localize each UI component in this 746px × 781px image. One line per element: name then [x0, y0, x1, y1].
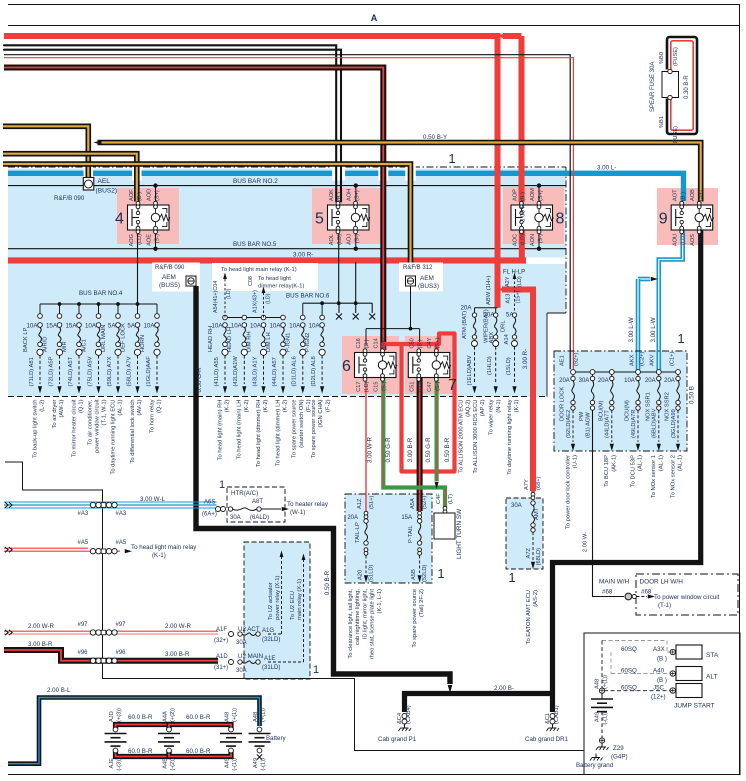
wire: relay4 LD to bus bar no.4: [137, 230, 139, 304]
svg-text:3.00 R-: 3.00 R-: [293, 252, 313, 259]
svg-text:C4Y: C4Y: [427, 337, 433, 348]
svg-text:BUS BAR NO.4: BUS BAR NO.4: [79, 290, 123, 297]
svg-text:10A: 10A: [85, 323, 97, 330]
wire: 0.50 G-R relay6 S- to light turn switch: [383, 378, 445, 507]
svg-text:To head light main relay: To head light main relay: [131, 544, 197, 551]
svg-text:DIM LH: DIM LH: [266, 332, 272, 352]
relay 7 highlight: [405, 336, 456, 394]
svg-text:To head light: To head light: [258, 276, 291, 282]
svg-text:A4B: A4B: [163, 758, 169, 769]
svg-text:2.00 W-R: 2.00 W-R: [28, 623, 55, 630]
svg-text:(K-2): (K-2): [225, 399, 231, 412]
svg-text:To mirror heater circuit: To mirror heater circuit: [71, 399, 77, 457]
svg-text:A48: A48: [225, 712, 231, 722]
wire: AEM BUS3 to relay 6/7 coils: [410, 286, 412, 329]
svg-text:8: 8: [556, 211, 565, 228]
svg-text:10A: 10A: [289, 323, 301, 330]
wire: 60.0 B-R battery links top: [116, 725, 170, 730]
wire: 0.50 G-R from AEM BUS5 to ground bus: [196, 286, 450, 684]
svg-text:AOJ: AOJ: [346, 234, 352, 245]
svg-text:(LD): (LD): [226, 288, 232, 299]
svg-text:(BUS3): (BUS3): [418, 283, 439, 290]
svg-text:A: A: [371, 13, 378, 23]
svg-text:(6BLD)ABV: (6BLD)ABV: [652, 408, 658, 438]
svg-text:#96: #96: [116, 650, 127, 656]
wire: 0.50 B-R loop relay6 S+ to relay7: [383, 334, 454, 472]
wire: 0.50 B from relay 9: [553, 230, 701, 691]
svg-text:ID light, mirror light,: ID light, mirror light,: [362, 589, 368, 640]
svg-text:To head light (dimmer) LH: To head light (dimmer) LH: [275, 400, 281, 467]
svg-text:A48: A48: [595, 679, 601, 689]
svg-text:AOG: AOG: [129, 234, 135, 246]
svg-text:(LD): (LD): [266, 293, 272, 304]
svg-text:A8T: A8T: [252, 499, 263, 505]
svg-text:5: 5: [315, 211, 324, 228]
svg-text:To head light (dimmer) RH: To head light (dimmer) RH: [256, 400, 262, 468]
svg-text:3.00 B-R: 3.00 B-R: [28, 641, 53, 648]
svg-text:A5B: A5B: [411, 569, 417, 580]
svg-text:(31+): (31+): [214, 665, 228, 671]
svg-text:(B ): (B ): [364, 339, 370, 348]
svg-text:AOD: AOD: [146, 189, 152, 201]
wire: bus bar no.6 left rail (head lamp): [225, 317, 283, 319]
svg-text:15A: 15A: [46, 323, 58, 330]
svg-text:A40: A40: [653, 668, 665, 675]
svg-text:(LT): (LT): [448, 494, 454, 504]
frame: cab section boundary: [5, 462, 584, 751]
svg-text:MAIN W/H: MAIN W/H: [599, 579, 630, 586]
svg-text:AON: AON: [530, 234, 536, 246]
relay 4 highlight: [117, 188, 179, 244]
svg-text:ALT: ALT: [706, 674, 718, 681]
svg-text:rheo stat, license plate light: rheo stat, license plate light: [370, 589, 376, 660]
connector AEL (BUS2) R&F/B 090: [83, 178, 94, 191]
relay 8: [511, 205, 553, 230]
wire: B-Y to relay 4: [3, 154, 137, 202]
svg-text:AOL: AOL: [329, 234, 335, 245]
svg-text:A1E: A1E: [264, 656, 275, 662]
svg-text:NOX SSR2: NOX SSR2: [665, 392, 671, 421]
fuse DEF LOCK 5A: [137, 304, 139, 314]
svg-text:P-TAIL: P-TAIL: [408, 525, 414, 543]
svg-text:(68LD): (68LD): [536, 548, 542, 565]
svg-text:(AL-1): (AL-1): [638, 455, 644, 471]
svg-text:5A: 5A: [108, 323, 116, 330]
wire: 0.50 W-R feed: [4, 55, 570, 370]
node: door harness interface box: [636, 574, 738, 615]
svg-text:4: 4: [115, 211, 124, 228]
svg-text:1: 1: [508, 570, 515, 585]
svg-text:BUS BAR NO.2: BUS BAR NO.2: [233, 178, 278, 185]
relay 7: [408, 353, 450, 378]
svg-text:(AL-1): (AL-1): [118, 399, 124, 415]
fuse HORN 10A: [156, 304, 158, 314]
svg-text:&C1: &C1: [545, 713, 551, 724]
svg-text:(AL-1): (AL-1): [678, 455, 684, 471]
svg-text:AOB: AOB: [690, 189, 696, 201]
wire: bus bar no.6 right rail: [303, 302, 372, 304]
svg-text:3.00 R-: 3.00 R-: [522, 349, 529, 369]
svg-text:20A: 20A: [460, 305, 472, 312]
svg-text:20A: 20A: [347, 515, 358, 521]
svg-text:(LD): (LD): [418, 381, 424, 392]
svg-text:(B ): (B ): [337, 192, 343, 201]
connector AEM (BUS5) R&F/B 090: [152, 263, 200, 292]
svg-text:P-IGN2: P-IGN2: [305, 333, 311, 352]
svg-text:3.00 B-R: 3.00 B-R: [407, 437, 414, 462]
svg-text:To spare power source: To spare power source: [412, 589, 418, 648]
svg-text:(71LD) A81: (71LD) A81: [29, 357, 35, 386]
svg-text:AOE: AOE: [146, 234, 152, 246]
svg-text:30A: 30A: [230, 515, 241, 521]
svg-text:R&F/B 090: R&F/B 090: [54, 195, 85, 202]
wire: BUS BAR NO.5 rail: [8, 248, 566, 250]
svg-text:(S+): (S+): [698, 190, 704, 201]
svg-text:(S-): (S-): [381, 381, 387, 390]
node: bus bar region NO.4/NO.6 (light blue): [8, 264, 566, 397]
svg-text:AEL: AEL: [98, 178, 111, 185]
svg-text:(92+): (92+): [573, 352, 579, 366]
connector AEM (BUS3) R&F/B 312: [399, 263, 443, 292]
svg-text:(F-2): (F-2): [325, 399, 331, 412]
svg-text:To power door lock controller: To power door lock controller: [565, 455, 571, 529]
svg-text:AOT: AOT: [673, 189, 679, 201]
svg-text:(LD): (LD): [520, 234, 526, 245]
svg-text:60SQ: 60SQ: [621, 685, 637, 692]
svg-text:(+(3)): (+(3)): [116, 708, 122, 722]
svg-text:dimmer relay(K-1): dimmer relay(K-1): [258, 284, 304, 290]
fuse DIM RH 10A: [261, 315, 266, 320]
svg-text:C47: C47: [427, 382, 433, 392]
svg-text:(51LD): (51LD): [369, 565, 375, 582]
svg-text:A3X: A3X: [653, 646, 665, 653]
wire: B-Y to AEL(BUS2): [3, 126, 88, 177]
node: head light relay taps above bus no.6: [212, 263, 318, 291]
svg-text:(43LD) A1Y: (43LD) A1Y: [252, 356, 258, 386]
svg-text:(AQ-2): (AQ-2): [466, 399, 472, 416]
svg-text:C08: C08: [248, 276, 254, 286]
node: DOOR LOCK fuse box 1 (light blue): [554, 351, 687, 451]
svg-text:(CAB1): (CAB1): [554, 705, 560, 724]
svg-text:10A: 10A: [143, 323, 155, 330]
svg-text:(Q-1): (Q-1): [79, 399, 85, 413]
svg-text:#A5: #A5: [116, 540, 127, 546]
svg-text:DRL MAIN: DRL MAIN: [101, 325, 107, 352]
fuse DIM LH 10A: [281, 315, 286, 320]
svg-text:60.0 B-R: 60.0 B-R: [128, 748, 153, 755]
wire: 2.00 B-L battery feed: [8, 698, 260, 764]
svg-text:0.50 G-R: 0.50 G-R: [425, 437, 432, 463]
svg-text:(1GLD)AAF: (1GLD)AAF: [146, 356, 152, 387]
svg-text:A1X(43+): A1X(43+): [253, 290, 259, 313]
fuse DOOR LOCK 20A: [571, 370, 576, 375]
svg-text:To differential lock switch: To differential lock switch: [130, 400, 136, 464]
svg-text:C14: C14: [373, 338, 379, 348]
node: tail lamp fuse box border: [345, 494, 432, 583]
svg-text:To spare power source: To spare power source: [292, 400, 298, 459]
svg-text:(41LD) A55: (41LD) A55: [214, 357, 220, 386]
svg-text:%B0: %B0: [659, 52, 665, 64]
svg-text:#68: #68: [641, 589, 652, 596]
wire: bus bar no.2 lower rail: [8, 185, 566, 187]
svg-text:(B ): (B ): [520, 192, 526, 201]
svg-text:(S+): (S+): [354, 190, 360, 201]
svg-text:9: 9: [659, 211, 668, 228]
wire: 3.00 L-W relay 9 to door-lock fuses: [659, 230, 683, 370]
svg-text:To wiper relay: To wiper relay: [489, 399, 495, 435]
svg-text:To head light (main) RH: To head light (main) RH: [217, 400, 223, 461]
svg-text:To back-up light switch: To back-up light switch: [32, 400, 38, 458]
fuse AIR/D 15A: [59, 304, 61, 314]
fuse HEAD RH 10A: [223, 315, 228, 320]
svg-text:(LD): (LD): [337, 234, 343, 245]
svg-text:DRL: DRL: [501, 320, 507, 332]
svg-text:To power window circuit: To power window circuit: [654, 594, 720, 601]
wire: 3.00 W-L heater feed: [4, 501, 217, 503]
svg-text:(B ): (B ): [657, 656, 667, 663]
fuse BCU(M) 20A: [609, 370, 614, 375]
svg-text:TAIL-LP: TAIL-LP: [355, 522, 361, 543]
relay 5 highlight: [312, 188, 382, 244]
svg-text:HORN: HORN: [140, 335, 146, 352]
svg-text:20A: 20A: [645, 378, 656, 384]
svg-text:C15: C15: [373, 382, 379, 392]
svg-text:J5C: J5C: [653, 685, 665, 692]
wire: 3.00 B-R relay7 LD to P-TAIL: [417, 378, 423, 511]
node: AMT fuse box 1 (light blue): [506, 498, 543, 569]
svg-text:NOX SSR1: NOX SSR1: [645, 392, 651, 421]
svg-text:C4F: C4F: [436, 493, 442, 504]
svg-text:DIM RH: DIM RH: [246, 331, 252, 352]
svg-text:#A3: #A3: [116, 511, 127, 517]
svg-text:To BCU 18P: To BCU 18P: [604, 455, 610, 487]
wire: 2.00 W-R: [4, 630, 218, 632]
battery A4A: [167, 727, 172, 732]
svg-text:To spare power source: To spare power source: [311, 400, 317, 459]
svg-text:15A: 15A: [65, 323, 77, 330]
svg-text:5A: 5A: [127, 323, 135, 330]
svg-text:30A: 30A: [579, 378, 590, 384]
svg-text:10A: 10A: [624, 378, 635, 384]
svg-text:(-(1)): (-(1)): [260, 758, 266, 771]
svg-text:AEM: AEM: [162, 274, 176, 281]
svg-text:(LD): (LD): [681, 234, 687, 245]
relay 5: [328, 205, 370, 230]
svg-text:(15+): (15+): [516, 290, 522, 303]
svg-text:#97: #97: [78, 622, 89, 628]
svg-text:30A: 30A: [236, 668, 247, 674]
svg-text:(68+): (68+): [536, 476, 542, 490]
svg-text:BUS BAR NO.5: BUS BAR NO.5: [233, 241, 277, 248]
svg-text:ABX: ABX: [489, 332, 495, 344]
svg-text:(Tail) 2F-2): (Tail) 2F-2): [419, 589, 425, 617]
svg-text:A5A: A5A: [410, 498, 416, 509]
svg-text:MIR: MIR: [62, 341, 68, 352]
wire: 3.00 B-R lower feed: [4, 650, 218, 661]
wire: door box internal bus: [573, 371, 678, 373]
svg-text:(AW-1): (AW-1): [59, 399, 65, 417]
wire: relay S+ stubs to bus rail: [155, 186, 157, 203]
svg-text:(12+): (12+): [651, 694, 666, 701]
svg-text:(-(2)): (-(2)): [170, 758, 176, 771]
junction arrow blue: [651, 277, 658, 281]
svg-text:AOS: AOS: [690, 234, 696, 246]
svg-text:To daytime running light relay: To daytime running light relay: [507, 399, 513, 475]
relay 9: [671, 205, 713, 230]
svg-text:3.00 B-R: 3.00 B-R: [165, 651, 190, 658]
svg-text:A1G: A1G: [262, 628, 274, 634]
svg-text:Cab grand DR1: Cab grand DR1: [525, 736, 569, 743]
svg-text:P-IGN1: P-IGN1: [286, 333, 292, 352]
svg-text:(44LD)A7T: (44LD)A7T: [605, 410, 611, 438]
svg-text:(6A+): (6A+): [202, 512, 217, 518]
svg-text:A14: A14: [504, 333, 510, 344]
svg-text:20A: 20A: [664, 378, 675, 384]
wire: 3.00 B-R feed to relay 6: [4, 68, 383, 351]
ground battery grand Z29: [599, 738, 604, 743]
svg-text:R&F/B 312: R&F/B 312: [403, 265, 433, 271]
svg-text:AJD: AJD: [109, 711, 115, 722]
svg-text:(FUSE): (FUSE): [673, 47, 679, 66]
svg-text:(starter switch ON): (starter switch ON): [299, 399, 305, 447]
svg-text:A1D: A1D: [216, 654, 228, 660]
svg-text:(U-1): (U-1): [573, 455, 579, 468]
wire: 3.00 R- red bus bar: [8, 257, 526, 263]
svg-text:AMT: AMT: [534, 507, 540, 520]
wire: B-Y to AEM(BUS3): [3, 164, 411, 277]
fuse HTR(A/C) 30A: [227, 487, 285, 522]
svg-text:(B ): (B ): [418, 339, 424, 348]
svg-text:(S-): (S-): [435, 381, 441, 390]
svg-text:0.50 G-R: 0.50 G-R: [385, 437, 392, 463]
svg-text:PW: PW: [579, 411, 585, 421]
svg-text:(K-2): (K-2): [283, 399, 289, 412]
svg-text:0.50 G-R: 0.50 G-R: [196, 367, 203, 393]
svg-text:(S+): (S+): [435, 338, 441, 349]
fuse P-IGN2 10A: [321, 303, 323, 315]
svg-text:BUS BAR NO.6: BUS BAR NO.6: [286, 293, 330, 300]
svg-text:(+(1)): (+(1)): [603, 675, 609, 689]
svg-text:2.00 B-L: 2.00 B-L: [47, 687, 71, 694]
svg-text:(B ): (B ): [657, 677, 667, 684]
svg-text:(51+): (51+): [369, 495, 375, 509]
svg-text:60.0 B-R: 60.0 B-R: [128, 714, 153, 721]
svg-text:JUMP START: JUMP START: [674, 703, 715, 710]
wire: 2.00 B- ground bus: [405, 694, 553, 713]
battery A48: [257, 727, 262, 732]
wire: 3.00 R- red feed: [4, 36, 498, 308]
svg-text:R&F/B 090: R&F/B 090: [155, 265, 185, 271]
battery A48 jump start: [599, 688, 604, 693]
svg-text:&C4: &C4: [397, 713, 403, 724]
svg-text:(AP-2): (AP-2): [480, 399, 486, 416]
svg-text:(IGN CHA): (IGN CHA): [318, 399, 324, 427]
svg-text:#A3: #A3: [78, 511, 89, 517]
svg-text:(G4P): (G4P): [611, 754, 628, 761]
ground Cab grand P1: [402, 714, 407, 719]
fuse A/C1 10A: [98, 304, 100, 314]
node: door lock box border: [554, 351, 687, 451]
ground Cab grand DR1: [550, 714, 555, 719]
frame: bottom right box: [584, 633, 740, 775]
svg-text:1: 1: [437, 566, 444, 581]
svg-text:%B1: %B1: [659, 116, 665, 128]
svg-text:To air conditioner,: To air conditioner,: [87, 399, 93, 445]
svg-text:2.00 W-R: 2.00 W-R: [165, 623, 192, 630]
svg-text:To air dryer: To air dryer: [52, 399, 58, 428]
svg-text:To horn relay: To horn relay: [149, 399, 155, 433]
svg-text:30A: 30A: [511, 503, 522, 509]
svg-text:(C1+): (C1+): [670, 352, 676, 366]
svg-text:AEM: AEM: [420, 275, 434, 282]
wire: #A5 W-R to head light main relay: [4, 547, 88, 549]
svg-text:(59LD) A7X: (59LD) A7X: [107, 356, 113, 386]
svg-text:(S-): (S-): [538, 234, 544, 243]
svg-text:3.00 W-L: 3.00 W-L: [140, 496, 166, 503]
svg-text:(75LD) A5V: (75LD) A5V: [87, 356, 93, 386]
junction arrow on red feed: [496, 34, 504, 39]
svg-text:HEAD RH: HEAD RH: [208, 326, 214, 352]
svg-text:AJE: AJE: [109, 758, 115, 769]
svg-text:(AL-1): (AL-1): [658, 455, 664, 471]
fuse MIR 15A: [78, 304, 80, 314]
svg-text:10A: 10A: [269, 323, 281, 330]
fuse PW 30A: [590, 370, 595, 375]
svg-text:A/C1: A/C1: [81, 339, 87, 352]
svg-text:3.00 R-: 3.00 R-: [520, 202, 527, 222]
svg-text:AOF: AOF: [129, 189, 135, 201]
node battery 4 no-connect: [257, 754, 262, 759]
svg-text:To ALLISON 2000 ATM ECU: To ALLISON 2000 ATM ECU: [459, 400, 465, 473]
svg-text:(32LD): (32LD): [262, 637, 280, 643]
svg-text:AOP: AOP: [512, 189, 518, 201]
svg-text:Battery grand: Battery grand: [576, 762, 614, 769]
node: AMT fuse box border: [506, 498, 543, 569]
svg-text:(T-1): (T-1): [658, 602, 671, 609]
svg-text:#96: #96: [78, 650, 89, 656]
svg-text:To EATON AMT ECU: To EATON AMT ECU: [526, 590, 532, 644]
svg-text:A6S: A6S: [204, 500, 215, 506]
svg-text:C16: C16: [356, 338, 362, 348]
svg-text:(15LD): (15LD): [506, 357, 512, 375]
svg-text:2.00 W-: 2.00 W-: [583, 532, 589, 552]
wire: black B feed pair: [4, 45, 336, 201]
svg-text:(-(3)): (-(3)): [116, 758, 122, 771]
svg-text:20A: 20A: [598, 378, 609, 384]
svg-text:Battery: Battery: [266, 735, 287, 742]
svg-text:To NOx sensor 2: To NOx sensor 2: [670, 455, 676, 498]
node: white gaps where wires cross bus bar: [84, 165, 94, 180]
svg-text:(6ALD): (6ALD): [250, 515, 269, 521]
svg-text:To U2 actuator: To U2 actuator: [268, 582, 274, 620]
svg-text:(-(1)): (-(1)): [232, 758, 238, 771]
svg-text:To heater relay: To heater relay: [287, 501, 329, 508]
svg-text:1: 1: [677, 331, 684, 346]
svg-text:To NOx sensor 1: To NOx sensor 1: [651, 455, 657, 498]
svg-text:Z29: Z29: [613, 745, 624, 752]
svg-text:(31LD): (31LD): [262, 665, 280, 671]
svg-text:(S-): (S-): [154, 234, 160, 243]
relay 8 highlight: [503, 187, 564, 244]
fuse NOX SSR1 20A: [656, 370, 661, 375]
connector #A3: [90, 502, 95, 507]
svg-text:(52+): (52+): [422, 495, 428, 509]
svg-text:(+(1)): (+(1)): [232, 708, 238, 722]
svg-text:(D1LD) AL6: (D1LD) AL6: [292, 356, 298, 386]
svg-text:(AS-2): (AS-2): [533, 590, 539, 607]
svg-text:Cab grand P1: Cab grand P1: [378, 736, 417, 743]
battery AJD: [113, 727, 118, 732]
